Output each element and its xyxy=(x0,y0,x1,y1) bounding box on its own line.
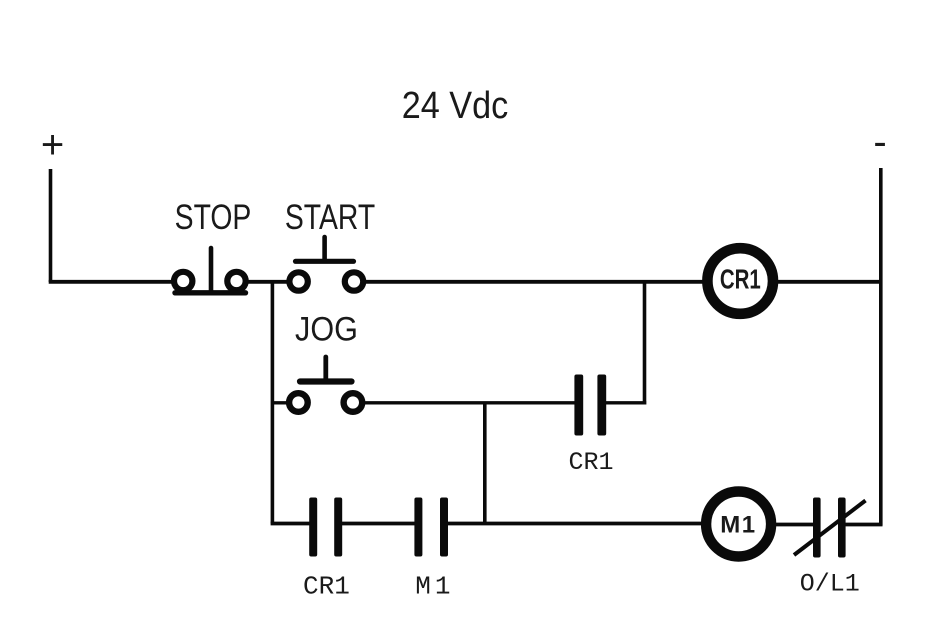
wire rung3 contact M1 to coil M1 xyxy=(448,522,704,526)
svg-text:24 Vdc: 24 Vdc xyxy=(402,83,508,126)
overload contact O/L1 (NC with slash) xyxy=(794,498,866,558)
wire rung1 left (rail to STOP) xyxy=(49,280,172,284)
wire rung1 coil CR1 to right rail xyxy=(778,280,883,284)
pushbutton JOG (NO) xyxy=(289,357,362,412)
wire rung1 START to coil CR1 xyxy=(365,280,703,284)
svg-text:JOG: JOG xyxy=(295,310,358,348)
contact CR1 (rung2, NO) xyxy=(574,375,606,436)
left rail xyxy=(49,169,53,282)
svg-text:M1: M1 xyxy=(720,512,756,539)
wire middle branch vertical (rung2 junction down to rung3) xyxy=(483,403,487,524)
contact CR1 (rung3, NO) xyxy=(309,498,342,557)
svg-text:START: START xyxy=(285,197,375,237)
wire left branch vertical (junction under rung1 down to rung3) xyxy=(271,280,275,524)
svg-text:CR1: CR1 xyxy=(568,448,613,477)
svg-text:+: + xyxy=(41,123,64,167)
coil CR1 xyxy=(707,248,773,314)
wire rung2 contact CR1 to right branch xyxy=(606,401,646,404)
svg-text:O/L1: O/L1 xyxy=(800,570,860,599)
wire rung3 coil M1 to overload contact xyxy=(776,523,815,527)
wire rung2 rail to JOG xyxy=(271,401,288,404)
wire right branch vertical (rung2 up to rung1) xyxy=(643,281,647,405)
coil M1 xyxy=(706,492,771,557)
contact M1 (rung3, NO) xyxy=(414,498,448,557)
wire rung3 overload to right rail xyxy=(846,523,883,527)
svg-text:CR1: CR1 xyxy=(303,572,350,602)
wire rung2 JOG to contact CR1 xyxy=(365,401,576,404)
wire rung3 left corner to contact CR1 xyxy=(271,522,310,526)
svg-text:-: - xyxy=(873,120,886,164)
pushbutton START (NO) xyxy=(289,237,363,291)
pushbutton STOP (NC) xyxy=(174,248,246,293)
wire rung1 STOP to START xyxy=(248,280,289,284)
svg-text:CR1: CR1 xyxy=(720,265,761,296)
wire rung3 contact CR1 to contact M1 xyxy=(342,522,415,526)
svg-text:M1: M1 xyxy=(415,572,454,602)
svg-text:STOP: STOP xyxy=(175,197,252,237)
right rail xyxy=(879,168,883,526)
